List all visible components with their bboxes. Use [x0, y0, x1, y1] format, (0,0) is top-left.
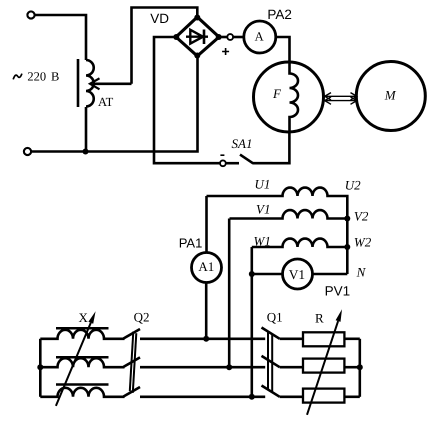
node bridge bottom [194, 53, 200, 59]
wire tap to top rail [132, 8, 198, 84]
autotransformer AT core bar [77, 59, 80, 107]
label V1 [256, 202, 270, 217]
label Q1 [267, 309, 283, 324]
label A1 inside PA1 [198, 259, 214, 274]
label R [315, 311, 324, 326]
svg-text:V1: V1 [256, 202, 270, 217]
svg-text:220: 220 [27, 69, 46, 83]
svg-text:V1: V1 [289, 267, 305, 282]
switch Q1 linkage [267, 332, 269, 390]
node V2 [344, 216, 350, 222]
label AT [98, 95, 114, 109]
svg-text:VD: VD [150, 11, 169, 26]
svg-text:А: А [255, 29, 264, 43]
label minus [220, 154, 224, 156]
reactor X coil row3 [40, 388, 124, 397]
svg-text:SA1: SA1 [232, 136, 253, 151]
R right bus [358, 339, 361, 397]
node W voltmeter tap [249, 271, 255, 277]
AT tap arrowhead [90, 78, 100, 89]
node junction AT bottom [83, 149, 89, 155]
terminal plus [227, 34, 233, 40]
wire R row2 to bus [344, 366, 359, 369]
svg-text:U1: U1 [255, 177, 271, 192]
wire Q1 to R row2 [280, 366, 303, 369]
label A inside PA2 [255, 29, 264, 43]
reactor X variable arrow [56, 323, 91, 406]
label U1 [255, 177, 271, 192]
switch Q1 blade row2 [262, 356, 280, 367]
wire bottom rail [31, 56, 198, 152]
reactor core bar row2 [56, 356, 109, 359]
svg-text:N: N [356, 264, 367, 279]
terminal minus [220, 160, 226, 166]
wire U phase down to PA1 [205, 196, 208, 253]
node R bus [357, 364, 363, 370]
wire top rail to AT [35, 15, 87, 60]
svg-text:F: F [272, 86, 282, 101]
switch Q1 blade row3 [262, 386, 280, 397]
diode inside bridge [186, 36, 208, 38]
winding U1-U2 [207, 188, 348, 274]
switch Q2 blade row2 [124, 357, 141, 367]
label X [79, 310, 89, 325]
ammeter PA2 [244, 21, 276, 53]
node bridge top [194, 15, 200, 21]
reactor X coil row1 [40, 330, 124, 339]
label W2 [354, 234, 372, 249]
svg-text:В: В [51, 69, 59, 83]
switch Q2 blade row1 [124, 329, 141, 339]
node W2 [344, 244, 350, 250]
wire PA2 to F top [276, 37, 290, 63]
wire Q1 to R row1 [280, 337, 303, 340]
autotransformer AT coil [86, 60, 94, 107]
reactor core bar row1 [56, 327, 109, 330]
svg-text:Q2: Q2 [134, 309, 150, 324]
wire voltmeter right to N [313, 273, 348, 276]
resistor R row1 [303, 332, 344, 346]
svg-text:A1: A1 [198, 259, 214, 274]
reactor X coil row2 [40, 358, 124, 367]
wire voltmeter left [252, 273, 283, 276]
machine F (exciter field) [254, 62, 324, 132]
winding W1-W2 [252, 239, 347, 247]
motor M [356, 62, 425, 131]
label VD [150, 11, 169, 26]
wire Q1 to R row3 [280, 395, 303, 398]
svg-text:PV1: PV1 [325, 284, 351, 299]
node reactor star [37, 364, 43, 370]
resistor R row3 [303, 389, 344, 403]
wire AT coil bottom to rail [85, 107, 88, 152]
node U row1 [203, 336, 209, 342]
reactor X left star bus [39, 339, 42, 397]
ammeter PA1 [192, 253, 222, 283]
label M [384, 88, 397, 103]
label PV1 [325, 284, 351, 299]
shaft coupling arrows [325, 93, 358, 105]
wire minus terminal to switch [226, 162, 239, 165]
label ~220V source [27, 69, 59, 83]
svg-text:R: R [315, 311, 324, 326]
svg-text:AT: AT [98, 95, 114, 109]
winding V1-V2 [230, 210, 348, 218]
label W1 [254, 234, 271, 249]
wire row1 Q2 to Q1 [140, 337, 265, 340]
label plus [222, 48, 229, 55]
svg-text:W1: W1 [254, 234, 271, 249]
label V1 inside PV1 [289, 267, 305, 282]
svg-text:W2: W2 [354, 234, 372, 249]
F internal coil [290, 63, 299, 132]
wire bridge minus: left vertex down to SA1 [154, 37, 220, 163]
node bridge right [216, 34, 222, 40]
svg-text:X: X [79, 310, 89, 325]
switch SA1 blade [240, 155, 253, 164]
wire row3 Q2 to Q1 [140, 395, 265, 398]
label SA1 [232, 136, 253, 151]
label PA2 [267, 7, 292, 22]
reactor core bar row3 [56, 383, 109, 386]
switch Q1 blade row1 [262, 328, 280, 339]
wire row2 Q2 to Q1 [140, 366, 265, 369]
label Q2 [134, 309, 150, 324]
svg-text:PA2: PA2 [267, 7, 292, 22]
svg-text:V2: V2 [354, 208, 369, 223]
label N [356, 264, 367, 279]
resistor R row2 [303, 359, 344, 373]
node V row2 [226, 364, 232, 370]
wire R row1 to bus [344, 337, 359, 340]
wire SA1 to F bottom [253, 132, 290, 164]
voltmeter PV1 [283, 259, 313, 289]
wire plus terminal to PA2 [233, 36, 244, 39]
wire PA1 to row1 [205, 283, 208, 340]
wire bridge plus to terminal [219, 36, 227, 39]
diode bridge VD diamond [176, 17, 219, 56]
sine symbol [13, 74, 22, 80]
label PA1 [179, 235, 203, 250]
svg-text:PA1: PA1 [179, 235, 203, 250]
switch Q2 linkage [130, 332, 134, 392]
resistor R variable arrow [307, 321, 338, 415]
terminal bottom-left input [24, 148, 31, 155]
label V2 [354, 208, 369, 223]
label U2 [345, 177, 361, 192]
AT tap arrow [94, 83, 132, 86]
svg-text:Q1: Q1 [267, 309, 283, 324]
switch Q2 blade row3 [124, 387, 141, 397]
svg-text:U2: U2 [345, 177, 361, 192]
svg-text:M: M [384, 88, 397, 103]
terminal top-left input [27, 11, 34, 18]
wire W phase down [251, 247, 254, 397]
label F [272, 86, 282, 101]
node bridge left [173, 34, 179, 40]
wire V phase down [228, 219, 231, 368]
wire R row3 to bus [344, 395, 359, 398]
node W row3 [249, 394, 255, 400]
